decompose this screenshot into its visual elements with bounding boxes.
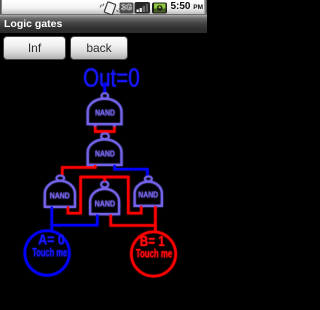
node A touch circle	[25, 231, 70, 276]
title bar	[0, 15, 207, 33]
wire: U4 output fan-out to U3 right input and U5 left input (red, logic 1)	[68, 177, 141, 213]
vibrate icon	[104, 2, 116, 15]
wire: node B riser to circle (red)	[154, 225, 156, 231]
battery icon	[152, 3, 167, 14]
svg-text:NAND: NAND	[95, 200, 116, 209]
status bar icons	[0, 0, 207, 15]
svg-text:Out=0: Out=0	[83, 62, 140, 92]
clock 5:50 PM	[170, 1, 203, 12]
wire: U3 output to U2 left input (red, logic 1)	[62, 165, 95, 176]
svg-text:3G: 3G	[121, 3, 132, 12]
U4 output bubble	[101, 182, 108, 188]
U2 output bubble	[101, 133, 109, 139]
circuit drawing	[0, 0, 207, 310]
op... NAND gate U1 (top)	[88, 99, 122, 125]
button back	[70, 36, 128, 60]
svg-text:NAND: NAND	[50, 191, 70, 200]
U5 output bubble	[145, 176, 152, 181]
wire: output of U1 to Out (blue, logic 0)	[104, 83, 106, 94]
wire: node B to U4 right input and U5 right input (red, logic 1)	[111, 206, 156, 226]
U2 input stubs	[95, 165, 114, 167]
svg-text:Touch me: Touch me	[136, 247, 173, 261]
svg-text:Touch me: Touch me	[32, 245, 67, 259]
wire: node A to U3 left input (blue, logic 0)	[51, 207, 53, 230]
status bar	[0, 0, 207, 15]
button Inf	[3, 36, 66, 60]
node B touch circle	[131, 232, 175, 276]
svg-text:NAND: NAND	[138, 191, 158, 200]
wire: node A branch to U4 left input (blue)	[51, 215, 98, 226]
svg-text:NAND: NAND	[95, 149, 115, 158]
U1 input stubs	[95, 124, 114, 128]
3G icon	[120, 3, 134, 14]
wire: U5 output to U2 right input (blue, logic 0)	[115, 165, 148, 176]
wire: U2 output to both U1 inputs (red, logic 1)	[95, 127, 114, 134]
svg-text:NAND: NAND	[95, 108, 115, 117]
U3 output bubble	[56, 176, 64, 181]
signal bars icon	[135, 2, 151, 14]
U1 output bubble	[102, 93, 109, 99]
